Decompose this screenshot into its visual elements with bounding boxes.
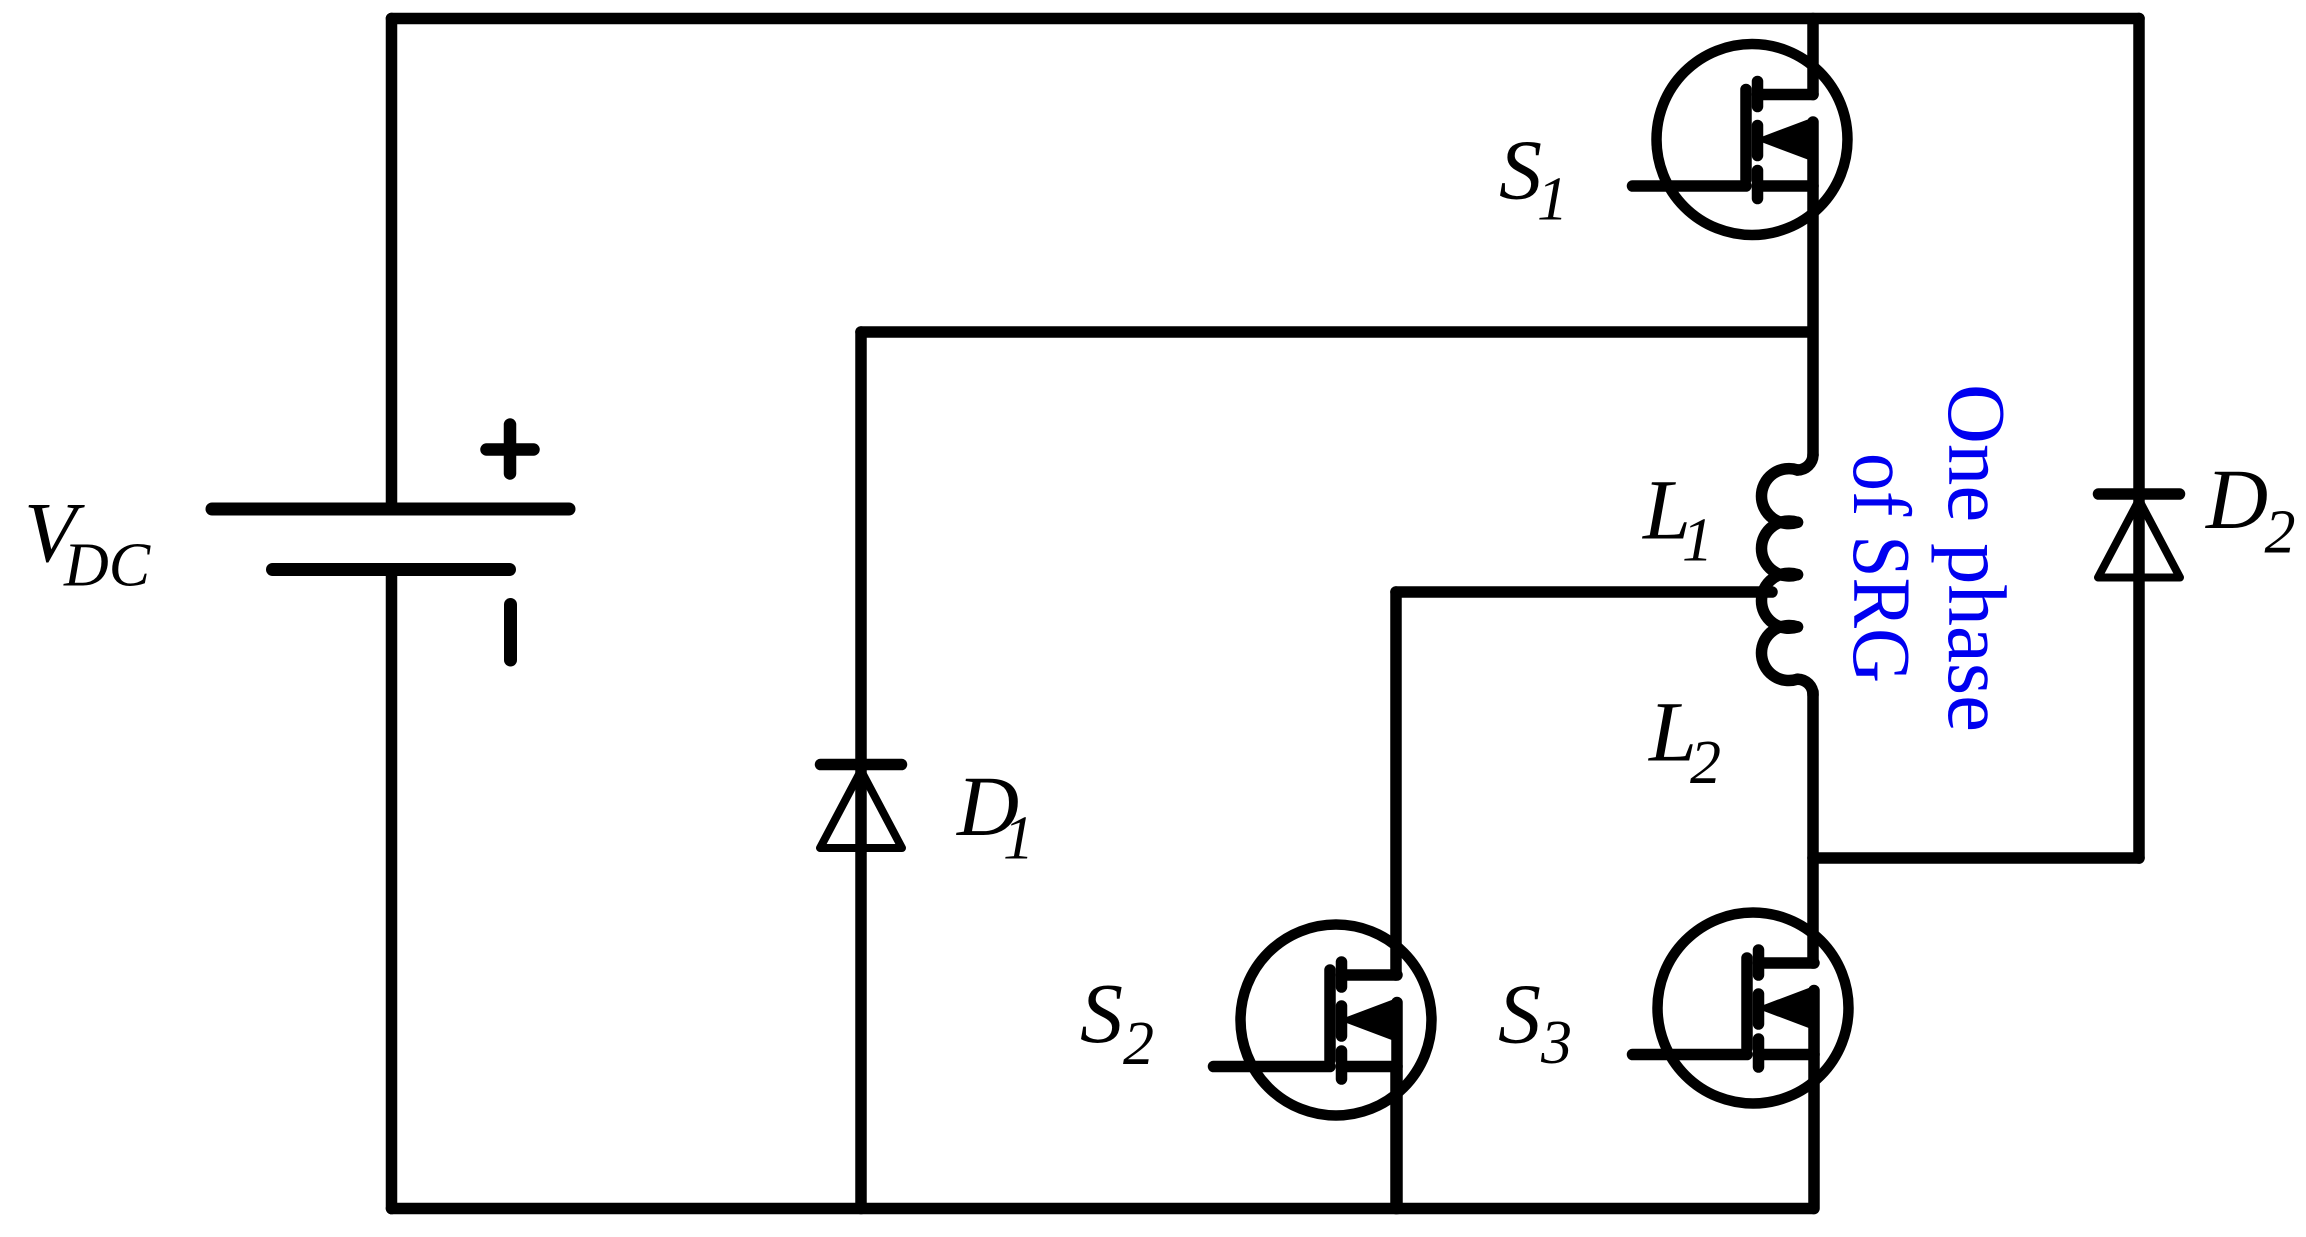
wire D1 branch vertical [855, 332, 867, 1209]
svg-text:1: 1 [1682, 507, 1713, 575]
svg-text:2: 2 [1123, 1010, 1154, 1078]
wire top bus [392, 13, 2140, 25]
svg-text:S: S [1498, 965, 1541, 1061]
wire C center-tap [1396, 586, 1772, 598]
transistor S2 (MOSFET) [1214, 925, 1432, 1209]
wire bottom bus [392, 1203, 1814, 1215]
inductor L2 (lower winding half) [1761, 573, 1797, 628]
wire S2 source vertical [1390, 1067, 1402, 1209]
svg-text:2: 2 [1690, 729, 1721, 797]
svg-text:DC: DC [63, 532, 151, 600]
diode D2 [2098, 494, 2180, 578]
wire S1 source to node B [861, 326, 1807, 338]
battery V_DC [212, 425, 569, 661]
svg-text:1: 1 [1537, 166, 1568, 234]
diode D1 [820, 765, 902, 849]
wire left bus lower [386, 576, 398, 1209]
wire right bus (through D2) [2133, 19, 2145, 859]
svg-text:2: 2 [2265, 499, 2296, 567]
transistor S3 (MOSFET) [1633, 692, 1849, 1209]
svg-text:D: D [2205, 451, 2268, 547]
svg-text:1: 1 [1003, 805, 1034, 873]
wire left bus upper [386, 19, 398, 505]
svg-text:One phase: One phase [1931, 384, 2023, 732]
svg-text:of SRG: of SRG [1836, 453, 1928, 683]
svg-text:S: S [1499, 122, 1542, 218]
svg-text:3: 3 [1540, 1009, 1572, 1077]
wire S2 drain vertical [1390, 592, 1402, 975]
svg-text:S: S [1080, 965, 1123, 1061]
inductor L1 (upper winding half) [1798, 455, 1814, 470]
wire D2 bottom to SRG phase [1813, 852, 2139, 864]
transistor S1 (MOSFET) [1633, 19, 1848, 456]
